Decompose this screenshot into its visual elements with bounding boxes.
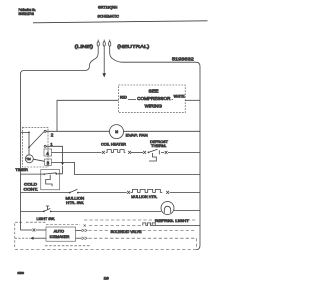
svg-text:COIL HEATER: COIL HEATER — [101, 142, 126, 146]
svg-text:EVAP. FAN: EVAP. FAN — [126, 133, 148, 138]
wire timer motor to terminal 3 — [33, 159, 44, 161]
svg-text:THERM.: THERM. — [151, 144, 167, 148]
harness dashed bottom edge short — [45, 245, 90, 247]
svg-text:WIRING: WIRING — [145, 104, 163, 109]
svg-text:MULLION: MULLION — [66, 196, 85, 200]
terminal 3 box — [45, 159, 52, 165]
svg-text:MULLION HTR.: MULLION HTR. — [131, 195, 157, 199]
mullion heater switch contact left — [69, 192, 71, 194]
defrost thermostat contact — [148, 152, 150, 154]
wire neutral side (right) from plug to right rail — [110, 46, 200, 249]
wire line rail to icemaker — [21, 229, 33, 231]
timer contact 2 — [44, 130, 46, 132]
svg-text:5193632: 5193632 — [172, 57, 194, 62]
splice X icemaker feed — [33, 229, 36, 232]
splice X left of defrost thermostat — [143, 151, 146, 154]
wire line side (left) from plug to left rail — [21, 46, 99, 230]
svg-text:4: 4 — [46, 151, 49, 156]
cold control box — [41, 170, 60, 190]
timer motor TM — [25, 155, 33, 163]
svg-text:COLD: COLD — [24, 183, 37, 187]
light switch plunger — [46, 206, 49, 209]
wire cold control up-link — [57, 166, 62, 174]
wire terminal 3 to neutral rail — [52, 162, 201, 174]
timer box (dashed) — [23, 127, 49, 167]
dashed row upper right — [84, 219, 196, 221]
power plug prong right — [109, 40, 111, 47]
power plug prong left — [97, 40, 99, 47]
solenoid valve coil — [143, 223, 155, 226]
icemaker harness outline left bracket (dashed) — [15, 222, 22, 248]
svg-text:SOLENOID VALVE: SOLENOID VALVE — [111, 230, 142, 234]
dashed wire to solenoid valve — [89, 225, 143, 227]
svg-text:GRT18QNH: GRT18QNH — [98, 6, 118, 10]
wire timer motor to contact 1 — [28, 147, 30, 154]
icemaker right lead 2 with connector — [76, 237, 82, 239]
svg-text:SEE: SEE — [149, 89, 159, 94]
icemaker return arrow — [30, 237, 34, 240]
wire terminal 2 row to evap fan and neutral — [46, 130, 200, 132]
wire white lead: compressor to neutral rail — [185, 99, 200, 101]
ground prong wire — [103, 46, 105, 73]
wire red lead: compressor to timer terminal 2 column — [57, 100, 118, 131]
wire mullion heater to neutral — [170, 191, 201, 193]
icemaker box — [46, 227, 76, 241]
mullion heater element — [131, 189, 163, 192]
wire timer common — [21, 132, 30, 147]
timer switch blade — [29, 132, 44, 148]
cold control bellows — [46, 175, 52, 187]
harness dashed top edge — [26, 222, 80, 224]
coil heater element — [106, 150, 126, 153]
light switch contact right — [50, 211, 52, 213]
wire terminal 1 to cold control link — [46, 146, 62, 162]
svg-text:COMPRESSOR: COMPRESSOR — [137, 96, 170, 101]
splice X left of mullion heater — [127, 191, 130, 194]
svg-text:RED: RED — [120, 96, 127, 100]
light switch contact left — [43, 211, 45, 213]
light filament — [164, 206, 170, 213]
svg-text:AUTO: AUTO — [54, 230, 65, 234]
wire mullion heater row from line rail — [21, 192, 70, 194]
power plug prong middle — [103, 40, 105, 47]
svg-text:16: 16 — [104, 276, 109, 280]
svg-text:SCHEMATIC: SCHEMATIC — [97, 13, 119, 18]
splice X right of defrost thermostat — [165, 151, 168, 154]
wire defrost thermostat to neutral — [161, 151, 200, 153]
splice X left of coil heater — [102, 151, 105, 154]
cold control contact dots — [43, 173, 45, 175]
svg-text:WHITE: WHITE — [174, 95, 186, 99]
svg-text:5995218748: 5995218748 — [19, 12, 34, 16]
timer switch common junction — [28, 132, 30, 134]
cold control blade — [44, 173, 56, 174]
wire terminal 4 row (defrost heater circuit) — [52, 151, 102, 153]
svg-text:05/99: 05/99 — [17, 271, 24, 275]
svg-text:(NEUTRAL): (NEUTRAL) — [117, 44, 150, 49]
svg-text:TIMER: TIMER — [15, 168, 28, 172]
refrigerator light bulb — [161, 202, 174, 215]
svg-text:CONT.: CONT. — [24, 188, 39, 192]
mullion heater switch contact right — [77, 192, 79, 194]
compressor box (dashed) — [118, 85, 185, 113]
mullion heater switch blade — [70, 189, 78, 192]
svg-text:(LINE): (LINE) — [75, 44, 94, 49]
defrost thermostat sensing bracket — [149, 153, 156, 161]
harness dashed bottom edge — [15, 249, 196, 251]
terminal 4 box — [44, 149, 52, 156]
svg-text:HTR. SW.: HTR. SW. — [66, 201, 84, 205]
wire refrigerator light to neutral — [174, 209, 200, 211]
timer contact 1 — [44, 145, 46, 147]
wire between heater and defrost thermostat — [131, 151, 143, 153]
splice X right of coil heater — [128, 151, 131, 154]
svg-text:2: 2 — [51, 132, 54, 137]
wire line rail to cold control — [21, 173, 44, 175]
svg-text:ICEMAKER: ICEMAKER — [50, 235, 70, 239]
wire mullion switch to heater — [78, 192, 127, 194]
svg-text:LIGHT SW.: LIGHT SW. — [37, 217, 55, 221]
wire solenoid valve to neutral — [153, 225, 200, 227]
connector arrow on cold control link — [61, 163, 64, 166]
defrost thermostat blade — [149, 149, 160, 154]
wire light switch to refrigerator light — [51, 210, 161, 212]
splice X right of mullion heater — [166, 191, 169, 194]
svg-text:TM: TM — [26, 157, 31, 161]
evap fan motor — [110, 125, 124, 139]
compressor inner wire stubs — [128, 98, 173, 100]
ground arrow — [102, 73, 106, 77]
splice X solenoid feed — [84, 224, 86, 226]
light switch blade — [44, 208, 50, 211]
icemaker right lead 1 with connector — [76, 229, 82, 231]
header rule — [33, 21, 208, 23]
svg-text:3: 3 — [47, 160, 50, 165]
svg-text:M: M — [115, 130, 118, 134]
wire light row from line rail — [21, 210, 44, 212]
